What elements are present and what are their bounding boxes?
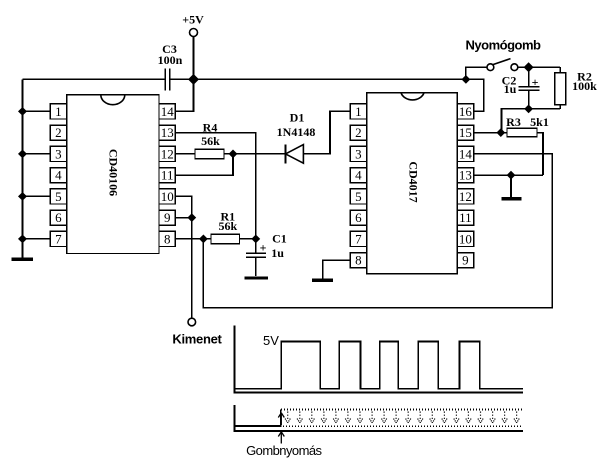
svg-text:15: 15 — [459, 125, 472, 140]
U1 pin 8 — [159, 231, 175, 246]
svg-text:56k: 56k — [201, 134, 220, 148]
svg-text:1u: 1u — [504, 82, 517, 96]
wire bus to U1 pin 1 — [23, 110, 51, 112]
svg-text:9: 9 — [164, 210, 171, 225]
wire top rail left — [23, 78, 166, 80]
wire bus to U1 pin 7 — [23, 238, 51, 240]
svg-text:7: 7 — [55, 231, 62, 246]
wire U2 pin 13 — [474, 174, 543, 176]
waveform 1 axis — [235, 326, 524, 393]
svg-text:6: 6 — [55, 210, 62, 225]
wire U1 pin 8 to junction — [175, 238, 203, 240]
svg-text:8: 8 — [355, 253, 362, 268]
capacitor C2 1u — [502, 67, 540, 109]
wire to output terminal — [191, 218, 193, 319]
svg-text:CD40106: CD40106 — [106, 149, 120, 196]
wire top rail right — [170, 79, 484, 111]
resistor R4 56k — [195, 121, 224, 159]
diode D1 1N4148 — [277, 110, 316, 163]
wire junction to U1 pin 11 — [175, 154, 233, 175]
svg-text:3: 3 — [355, 146, 362, 161]
svg-text:Gombnyomás: Gombnyomás — [246, 443, 322, 458]
U1 pin 7 — [50, 231, 66, 246]
U2 pin 13 — [457, 168, 473, 183]
svg-text:1: 1 — [55, 104, 62, 119]
wire D1 anode to U2 pin 1 — [303, 111, 350, 153]
wire button right to R2 — [518, 66, 560, 68]
junction button/C2/R2 — [524, 62, 534, 72]
IC U2 CD4017 — [367, 93, 458, 274]
svg-text:2: 2 — [355, 125, 362, 140]
junction pin15/R3 — [496, 128, 505, 137]
waveform 2 dotted bottom line — [283, 425, 522, 427]
wire rail to U1 pin 14 — [175, 79, 193, 111]
wire junction to R1 — [203, 238, 211, 240]
U1 pin 10 — [159, 189, 175, 204]
U2 pin 10 — [457, 231, 473, 246]
U2 pin 12 — [457, 189, 473, 204]
wire feedback U2 pin14 to pin8 node — [203, 154, 552, 308]
U2 pin 8 — [350, 253, 366, 268]
svg-text:2: 2 — [55, 125, 62, 140]
U2 pin 14 — [457, 146, 473, 161]
junction rail/+5V/pin14 — [188, 74, 199, 85]
svg-text:7: 7 — [355, 231, 362, 246]
U1 pin 3 — [50, 146, 66, 161]
junction bus pin7 — [18, 235, 27, 244]
svg-text:5k1: 5k1 — [530, 115, 549, 129]
svg-text:13: 13 — [161, 125, 174, 140]
svg-text:3: 3 — [55, 146, 62, 161]
svg-text:9: 9 — [462, 253, 469, 268]
wire button left to rail — [466, 67, 487, 79]
U1 pin 13 — [159, 125, 175, 140]
U1 pin 2 — [50, 125, 66, 140]
svg-text:14: 14 — [161, 104, 175, 119]
svg-text:10: 10 — [161, 189, 174, 204]
svg-text:5: 5 — [55, 189, 62, 204]
U1 pin 5 — [50, 189, 66, 204]
svg-text:13: 13 — [459, 168, 472, 183]
svg-text:CD4017: CD4017 — [407, 161, 421, 202]
U2 pin 5 — [350, 189, 366, 204]
junction bus pin5 — [18, 192, 27, 201]
U2 pin 11 — [457, 210, 473, 225]
U1 pin 12 — [159, 146, 175, 161]
svg-text:100n: 100n — [158, 53, 183, 67]
svg-text:+5V: +5V — [182, 13, 204, 27]
svg-text:16: 16 — [459, 104, 473, 119]
wire R4 to junction — [224, 153, 233, 155]
+5V supply terminal — [182, 13, 204, 37]
svg-text:Nyomógomb: Nyomógomb — [466, 38, 542, 53]
U2 pin 6 — [350, 210, 366, 225]
wire U2 pin 15 to R3 — [474, 132, 507, 134]
wire bus to U1 pin 3 — [23, 153, 51, 155]
svg-text:12: 12 — [459, 189, 472, 204]
capacitor C3 — [158, 42, 183, 91]
U2 pin 7 — [350, 231, 366, 246]
U2 pin 9 — [457, 253, 473, 268]
arrow on rising edge — [278, 413, 284, 425]
svg-text:1: 1 — [355, 104, 362, 119]
svg-text:1N4148: 1N4148 — [277, 125, 316, 139]
svg-text:100k: 100k — [572, 79, 597, 93]
U1 pin 14 — [159, 104, 175, 119]
ground (pin 13 node) — [502, 197, 522, 200]
U1 pin 9 — [159, 210, 175, 225]
waveform 2 low trace and rising edge — [236, 410, 281, 427]
U1 pin 4 — [50, 168, 66, 183]
wire pin13 node to ground — [510, 175, 512, 197]
wire U2 pin 8 to ground — [323, 260, 351, 278]
wire junction to D1 cathode — [233, 153, 286, 155]
junction rail/button — [462, 75, 471, 84]
dotted down arrows — [285, 412, 519, 423]
U2 pin 1 — [350, 104, 366, 119]
wire U1 pin 10 down — [175, 196, 191, 217]
U2 pin 16 — [457, 104, 473, 119]
svg-text:4: 4 — [355, 168, 362, 183]
capacitor C1 1u — [246, 231, 287, 276]
wire R2 bottom to pin15 node — [502, 109, 561, 133]
wire U1 pin 13 to R1 node — [175, 133, 255, 239]
wire R3 to U2 pin 13 row — [537, 133, 543, 176]
resistor R2 100k — [555, 67, 598, 109]
ground (U2 pin 8) — [312, 279, 333, 282]
svg-text:R4: R4 — [203, 121, 218, 135]
IC U1 CD40106 — [67, 95, 159, 254]
wire +5V lead — [193, 37, 195, 80]
junction R4/D1/pin11 — [229, 150, 238, 159]
U1 pin 1 — [50, 104, 66, 119]
push button Nyomogomb — [466, 38, 542, 71]
svg-text:1u: 1u — [271, 246, 284, 260]
svg-text:14: 14 — [459, 146, 473, 161]
svg-text:D1: D1 — [290, 110, 305, 124]
svg-text:6: 6 — [355, 210, 362, 225]
resistor R3 5k1 — [506, 115, 549, 137]
svg-text:11: 11 — [459, 210, 472, 225]
svg-text:4: 4 — [55, 168, 62, 183]
svg-text:11: 11 — [161, 168, 174, 183]
U1 pin 6 — [50, 210, 66, 225]
U1 pin 11 — [159, 168, 175, 183]
svg-text:R3: R3 — [506, 115, 521, 129]
resistor R1 56k — [211, 210, 240, 244]
svg-text:+: + — [260, 240, 267, 254]
wire R1 to C1 node — [240, 238, 256, 240]
svg-text:12: 12 — [161, 146, 174, 161]
svg-text:8: 8 — [164, 231, 171, 246]
ground (C1) — [245, 276, 269, 279]
svg-text:Kimenet: Kimenet — [172, 332, 222, 347]
junction pin13/ground — [507, 171, 516, 180]
waveform 1 pulse trace — [236, 342, 524, 389]
ground (left bus) — [12, 258, 33, 261]
junction bus pin1 — [18, 107, 27, 116]
wire left ground bus — [22, 79, 24, 257]
U2 pin 2 — [350, 125, 366, 140]
U2 pin 3 — [350, 146, 366, 161]
junction pin9/pin10/output — [187, 213, 196, 222]
wire U1 pin 9 — [175, 217, 191, 219]
svg-text:56k: 56k — [218, 219, 237, 233]
wire U1 pin 12 to R4 — [175, 153, 195, 155]
svg-text:10: 10 — [459, 231, 472, 246]
waveform 2 dotted top line — [281, 409, 522, 411]
svg-text:+: + — [532, 75, 539, 89]
junction C2/R2 bottom — [524, 105, 533, 114]
svg-text:5V: 5V — [263, 333, 279, 348]
U2 pin 15 — [457, 125, 473, 140]
output terminal Kimenet — [172, 318, 222, 346]
U2 pin 4 — [350, 168, 366, 183]
waveform 2 axis — [235, 405, 524, 431]
arrow Gombnyomas — [278, 432, 284, 444]
junction pin8/R1/feedback — [199, 235, 208, 244]
svg-text:C1: C1 — [272, 231, 287, 245]
wire bus to U1 pin 5 — [23, 195, 51, 197]
junction bus pin3 — [18, 150, 27, 159]
junction R1/C1/pin13wire — [251, 235, 260, 244]
svg-text:5: 5 — [355, 189, 362, 204]
